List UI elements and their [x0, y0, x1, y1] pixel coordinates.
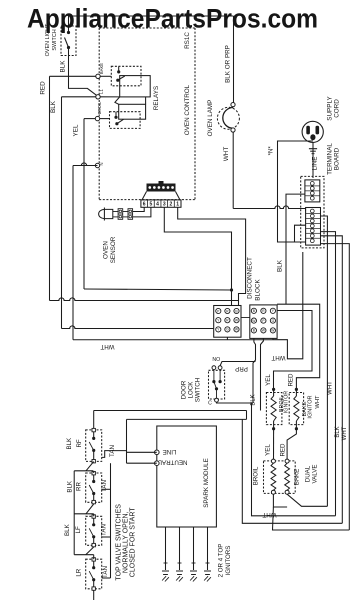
svg-text:WHT: WHT [271, 354, 285, 361]
svg-text:WHT: WHT [100, 343, 114, 350]
svg-text:AppliancePartsPros.com: AppliancePartsPros.com [27, 3, 318, 33]
svg-text:YEL: YEL [265, 374, 272, 386]
svg-text:BLK: BLK [64, 523, 71, 536]
svg-text:YEL: YEL [73, 124, 80, 136]
svg-text:RED: RED [280, 443, 287, 457]
svg-text:TAN: TAN [102, 566, 109, 578]
svg-text:WHT: WHT [342, 426, 348, 440]
svg-text:LINE: LINE [312, 157, 319, 171]
svg-text:LOCK: LOCK [188, 381, 195, 399]
svg-text:OVEN LAMP: OVEN LAMP [207, 100, 214, 137]
svg-text:BLK: BLK [277, 259, 284, 272]
svg-text:LF: LF [75, 526, 82, 533]
svg-text:3: 3 [163, 202, 166, 208]
svg-text:LR: LR [76, 568, 83, 576]
svg-text:YEL: YEL [265, 444, 272, 456]
svg-text:BROIL: BROIL [97, 101, 102, 114]
svg-text:5: 5 [149, 202, 152, 208]
svg-text:G: G [226, 328, 229, 332]
svg-text:RF: RF [76, 439, 83, 447]
svg-text:OVEN CONTROL: OVEN CONTROL [184, 84, 191, 135]
svg-text:NEUTRAL: NEUTRAL [158, 459, 187, 466]
svg-text:2: 2 [170, 202, 173, 208]
svg-text:SWITCH: SWITCH [195, 378, 202, 402]
svg-text:4: 4 [156, 202, 159, 208]
svg-text:BAKE: BAKE [99, 63, 104, 74]
svg-text:C: C [208, 401, 212, 407]
svg-text:*N*: *N* [268, 146, 274, 156]
svg-text:RS1C: RS1C [184, 32, 191, 49]
svg-text:BLK: BLK [50, 100, 57, 113]
svg-text:WHT: WHT [262, 511, 276, 518]
svg-text:BOARD: BOARD [334, 147, 341, 170]
svg-text:RR: RR [76, 482, 83, 491]
svg-text:TOP VALVE SWITCHES: TOP VALVE SWITCHES [116, 504, 123, 581]
svg-text:IGNITORS: IGNITORS [225, 546, 232, 576]
svg-text:LINE: LINE [163, 448, 177, 455]
svg-text:RED: RED [40, 81, 47, 95]
svg-text:BLK: BLK [60, 60, 67, 73]
svg-text:TERMINAL: TERMINAL [327, 143, 334, 175]
svg-text:TAN: TAN [101, 524, 108, 536]
svg-text:BLOCK: BLOCK [255, 279, 262, 301]
svg-text:6: 6 [143, 202, 146, 208]
svg-text:SUPPLY: SUPPLY [327, 96, 334, 121]
svg-text:PRP: PRP [235, 365, 248, 372]
svg-text:2 OR 4 TOP: 2 OR 4 TOP [218, 544, 225, 578]
svg-text:IGNITOR: IGNITOR [308, 395, 314, 418]
svg-text:WHT: WHT [223, 147, 230, 161]
svg-text:1: 1 [176, 202, 179, 208]
svg-text:DISCONNECT: DISCONNECT [247, 257, 254, 299]
svg-text:OVEN: OVEN [103, 241, 110, 259]
svg-text:VALVE: VALVE [311, 464, 318, 483]
svg-text:RELAYS: RELAYS [153, 86, 160, 110]
svg-text:BLK OR PRP: BLK OR PRP [225, 45, 232, 83]
svg-text:SPARK MODULE: SPARK MODULE [203, 458, 210, 508]
svg-text:WHT: WHT [315, 395, 321, 409]
svg-text:BLK: BLK [335, 426, 341, 437]
svg-text:SENSOR: SENSOR [110, 236, 117, 263]
svg-text:G: G [272, 319, 275, 323]
svg-text:WHT: WHT [327, 381, 333, 395]
svg-text:CORD: CORD [334, 99, 341, 118]
svg-text:TAN: TAN [101, 480, 108, 492]
svg-text:BROIL: BROIL [252, 466, 259, 485]
svg-text:DUAL: DUAL [304, 465, 311, 482]
svg-text:DOOR: DOOR [181, 380, 188, 399]
svg-text:L1: L1 [99, 89, 104, 94]
svg-text:BLK: BLK [66, 480, 73, 493]
svg-text:N: N [99, 162, 104, 165]
svg-text:RED: RED [288, 373, 295, 387]
svg-text:NO: NO [212, 357, 220, 363]
svg-text:CLOSED FOR START: CLOSED FOR START [130, 507, 137, 577]
svg-text:BLK: BLK [66, 437, 73, 450]
svg-text:BAKE: BAKE [294, 469, 301, 486]
